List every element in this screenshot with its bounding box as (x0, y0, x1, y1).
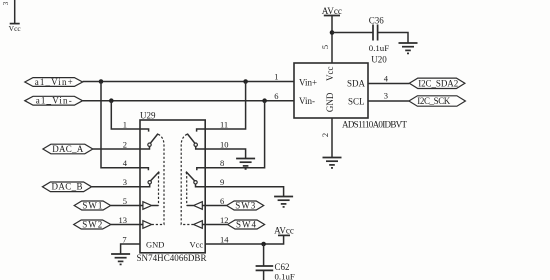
svg-text:1: 1 (274, 72, 278, 82)
svg-text:SDA: SDA (347, 79, 366, 89)
svg-text:C36: C36 (369, 16, 385, 26)
svg-text:3: 3 (384, 91, 388, 101)
svg-text:3: 3 (123, 177, 127, 187)
wire a1_Vin- net to U20 pin6 (83, 100, 294, 102)
node junction pin14/C62 (261, 242, 266, 247)
svg-text:12: 12 (220, 215, 229, 225)
node junction Vin+ / vertical A (99, 79, 104, 84)
port DAC_B (42, 182, 91, 192)
svg-text:1: 1 (123, 119, 127, 129)
ground (C36) (399, 43, 418, 53)
svg-text:AVcc: AVcc (274, 226, 294, 236)
port SW4 (228, 219, 265, 229)
port SW3 (227, 200, 264, 210)
ground (U29 pin7) (111, 254, 130, 264)
switch B terminals (U29 pins 4,3) (140, 168, 159, 187)
op-amp/ADC U20 body (294, 63, 368, 118)
svg-text:SN74HC4066DBR: SN74HC4066DBR (137, 253, 207, 263)
wire vertical C (Vin+ down to U29 pin11) (205, 82, 245, 130)
svg-text:U29: U29 (140, 110, 156, 120)
svg-text:I2C_SDA2: I2C_SDA2 (418, 78, 458, 88)
svg-text:SW2: SW2 (82, 219, 102, 229)
wire C36 to ground (378, 33, 408, 44)
wire C62 lower lead (263, 270, 265, 280)
svg-text:14: 14 (220, 234, 229, 244)
power AVcc (U29 pin14) (274, 226, 294, 236)
svg-text:U20: U20 (371, 54, 387, 64)
control buffer triangle (pin 12) (194, 221, 203, 229)
svg-text:Vin+: Vin+ (299, 78, 317, 88)
ground (U20 pin2) (323, 158, 342, 168)
svg-text:11: 11 (220, 119, 228, 129)
svg-text:4: 4 (384, 74, 389, 84)
wire U20 pin3 to I2C_SCK (368, 100, 409, 102)
port I2C_SCK (409, 96, 466, 106)
switch C terminals (U29 pins 8,9) (186, 168, 205, 187)
wire a1_Vin+ net to U20 pin1 (83, 81, 294, 83)
node junction Vin- / vertical B (109, 98, 114, 103)
capacitor C62 (256, 266, 274, 270)
control line to switch A (dashed) (152, 134, 164, 224)
control line to switch B (dashed) (158, 172, 161, 205)
node junction Vin+ / vertical C (243, 79, 248, 84)
node junction Vin- / vertical D (262, 98, 267, 103)
svg-text:Vin-: Vin- (299, 96, 315, 106)
svg-text:GND: GND (146, 240, 164, 250)
wire vertical D (Vin- down to U29 pin8) (205, 101, 264, 168)
switch D terminals (U29 pins 11,10) (187, 129, 205, 149)
wire U29 pin10 to ground (205, 149, 245, 159)
control line to switch D (dashed) (181, 134, 193, 224)
svg-text:SCL: SCL (348, 96, 365, 106)
control buffer triangle (pin 5) (143, 202, 152, 210)
svg-text:a1_Vin+: a1_Vin+ (35, 77, 73, 87)
svg-text:SW1: SW1 (82, 200, 102, 210)
wire junction to C36 (332, 32, 373, 34)
power AVcc (top, feeding U20 pin 5) (322, 6, 342, 33)
svg-text:2: 2 (320, 133, 330, 137)
svg-text:SW4: SW4 (236, 219, 257, 229)
port a1_Vin- (25, 96, 83, 106)
svg-text:a1_Vin-: a1_Vin- (36, 96, 72, 106)
svg-text:ADS1110A0IDBVT: ADS1110A0IDBVT (342, 119, 408, 129)
wire U29 pin6 to SW3 (202, 205, 226, 207)
wire vertical B (Vin- down to U29 pin1) (111, 101, 140, 129)
port SW1 (74, 200, 110, 210)
wire DAC_A to U29 pin2 (93, 148, 140, 150)
svg-text:9: 9 (220, 177, 224, 187)
wire U29 pin9 to ground (205, 187, 283, 197)
svg-text:3: 3 (2, 1, 10, 5)
svg-text:0.1uF: 0.1uF (369, 43, 389, 53)
svg-text:10: 10 (220, 139, 229, 149)
port I2C_SDA2 (409, 78, 465, 88)
svg-text:6: 6 (274, 91, 278, 101)
wire U20 pin4 to I2C_SDA2 (368, 83, 409, 85)
wire U29 pin12 to SW4 (202, 224, 227, 226)
svg-text:SW3: SW3 (235, 200, 256, 210)
svg-text:Vcc: Vcc (9, 24, 22, 33)
svg-text:5: 5 (123, 196, 127, 206)
svg-text:7: 7 (122, 234, 126, 244)
svg-text:13: 13 (119, 215, 128, 225)
port a1_Vin+ (25, 77, 83, 87)
svg-text:Vcc: Vcc (325, 66, 335, 81)
ground (U29 pin9) (274, 197, 293, 207)
wire DAC_B to U29 pin3 (92, 186, 140, 188)
svg-text:8: 8 (220, 158, 224, 168)
svg-text:2: 2 (123, 139, 127, 149)
svg-text:C62: C62 (275, 262, 290, 272)
wire U20 pin5 to AVcc junction (331, 33, 333, 64)
wire U29 pin14 to AVcc (205, 235, 283, 244)
control buffer triangle (pin 6) (194, 202, 203, 210)
node junction AVcc/C36 (330, 30, 335, 35)
wire vertical A (Vin+ down to U29 pin4) (101, 82, 140, 168)
svg-text:DAC_A: DAC_A (52, 144, 84, 154)
capacitor C36 (373, 25, 378, 41)
svg-text:0.1uF: 0.1uF (275, 272, 295, 280)
wire SW1 to U29 pin5 (111, 205, 143, 207)
wire SW2 to U29 pin13 (111, 224, 143, 226)
control line to switch C (dashed) (185, 172, 188, 205)
svg-text:I2C_SCK: I2C_SCK (417, 96, 451, 106)
svg-text:GND: GND (325, 92, 335, 112)
svg-text:5: 5 (320, 45, 330, 49)
control buffer triangle (pin 13) (143, 221, 152, 229)
port DAC_A (43, 144, 93, 154)
svg-text:Vcc: Vcc (190, 240, 204, 250)
power Vcc (top-left rail symbol) (9, 0, 22, 33)
wire triangle5 to control B (152, 205, 159, 207)
switch A terminals (U29 pins 1,2) (140, 129, 158, 149)
ground (U29 pin10) (236, 159, 255, 169)
analog switch U29 body (140, 120, 205, 253)
wire U29 pin7 to ground (121, 244, 140, 254)
svg-text:DAC_B: DAC_B (52, 182, 83, 192)
port SW2 (74, 219, 111, 229)
wire triangle6 to control C (187, 205, 194, 207)
wire junction to C62 (263, 244, 265, 266)
svg-text:AVcc: AVcc (322, 6, 342, 16)
svg-text:4: 4 (123, 158, 128, 168)
svg-text:6: 6 (220, 196, 224, 206)
wire U20 pin2 to ground (331, 118, 333, 158)
